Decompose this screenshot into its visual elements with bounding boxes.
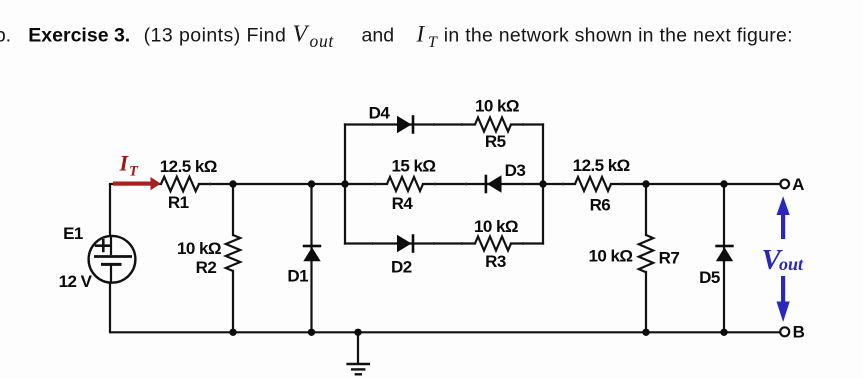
svg-text:R4: R4: [392, 194, 414, 213]
svg-text:D1: D1: [287, 267, 308, 286]
svg-text:Exercise 3.: Exercise 3.: [28, 24, 130, 46]
svg-text:T: T: [129, 164, 139, 180]
svg-text:in the network shown in the ne: in the network shown in the next figure:: [444, 24, 793, 46]
svg-text:R7: R7: [659, 248, 680, 267]
svg-text:A: A: [792, 175, 804, 194]
svg-text:12.5 kΩ: 12.5 kΩ: [160, 157, 217, 176]
svg-text:R6: R6: [590, 196, 611, 215]
svg-text:I: I: [416, 21, 426, 46]
svg-text:T: T: [428, 34, 438, 51]
svg-text:D2: D2: [391, 258, 412, 277]
svg-text:10 kΩ: 10 kΩ: [475, 96, 519, 115]
svg-text:D5: D5: [699, 268, 720, 287]
svg-text:out: out: [310, 31, 335, 51]
svg-text:out: out: [779, 254, 804, 274]
svg-text:10 kΩ: 10 kΩ: [589, 247, 633, 266]
svg-text:I: I: [119, 151, 130, 176]
svg-text:R1: R1: [168, 193, 189, 212]
svg-text:V: V: [293, 21, 310, 47]
svg-text:15 kΩ: 15 kΩ: [392, 157, 436, 176]
svg-text:10 kΩ: 10 kΩ: [177, 239, 221, 258]
svg-text:R3: R3: [485, 252, 506, 271]
svg-text:B: B: [793, 323, 805, 342]
svg-text:D3: D3: [505, 161, 526, 180]
svg-text:12.5 kΩ: 12.5 kΩ: [573, 156, 630, 175]
svg-text:b.: b.: [0, 24, 11, 46]
svg-text:10 kΩ: 10 kΩ: [474, 217, 518, 236]
svg-text:D4: D4: [369, 103, 391, 122]
svg-text:R2: R2: [196, 258, 217, 277]
svg-text:12 V: 12 V: [59, 272, 93, 291]
svg-text:and: and: [362, 24, 395, 46]
svg-text:(13 points) Find: (13 points) Find: [144, 24, 287, 46]
svg-text:E1: E1: [63, 224, 83, 243]
svg-text:R5: R5: [485, 132, 506, 151]
